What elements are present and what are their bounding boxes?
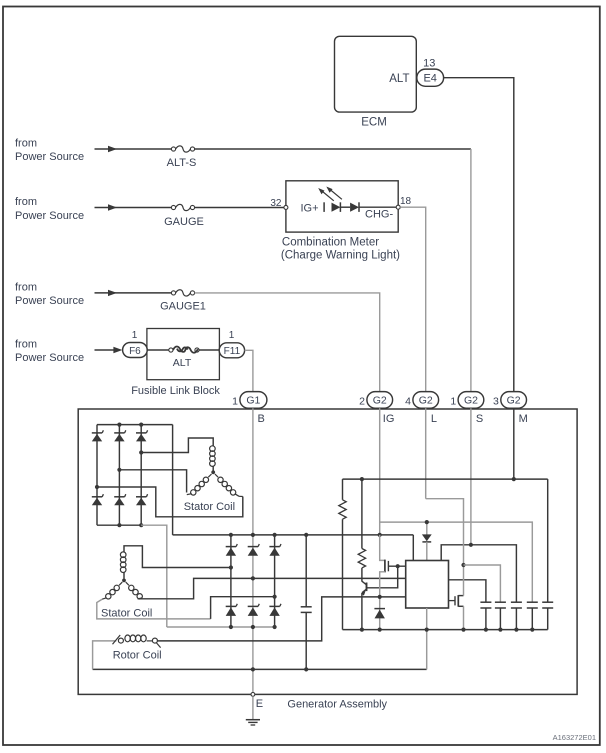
svg-text:G2: G2 bbox=[464, 395, 478, 407]
wire IG branch line bbox=[380, 522, 533, 602]
generator B plus bus bbox=[173, 534, 414, 536]
svg-text:G2: G2 bbox=[507, 395, 521, 407]
wire IG terminal into regulator bbox=[379, 408, 381, 535]
bridge1 column 3 wire bbox=[140, 425, 142, 526]
svg-text:from: from bbox=[15, 339, 37, 351]
svg-text:1: 1 bbox=[132, 330, 138, 341]
svg-text:from: from bbox=[15, 282, 37, 294]
wire B plus bus into IC bbox=[412, 535, 414, 561]
wire S terminal into regulator bbox=[470, 408, 472, 545]
B plus bus dots bbox=[229, 533, 233, 537]
wire from power source 4 with arrow bbox=[95, 349, 115, 351]
bridge1 diode D12 bbox=[114, 432, 124, 434]
regulator local ground bus bbox=[343, 629, 548, 631]
wire tap bridge1 phase2 to stator coil left bbox=[119, 470, 186, 493]
fusible link block box bbox=[147, 329, 220, 380]
ground symbol bbox=[246, 719, 260, 721]
svg-text:32: 32 bbox=[270, 198, 282, 209]
wire stator2 right leg to bridge2 phase2 bbox=[138, 578, 406, 598]
terminal E bbox=[251, 693, 255, 697]
node S junction bbox=[469, 543, 473, 547]
fuse ALT-S bbox=[171, 147, 175, 151]
rotor coil winding bbox=[125, 635, 130, 642]
rotor coil slip ring right bbox=[152, 638, 157, 643]
wire ground bus to rotor left bbox=[93, 641, 117, 670]
wire Q1 base to M1 gate bbox=[366, 566, 397, 588]
svg-text:Power Source: Power Source bbox=[15, 151, 84, 163]
wire from power source 3 with arrow bbox=[95, 292, 172, 294]
bridge1 minus bus bbox=[97, 524, 141, 526]
wire M terminal to regulator rail bbox=[513, 408, 515, 479]
svg-text:ECM: ECM bbox=[361, 116, 387, 128]
capacitor C1 bbox=[305, 535, 307, 607]
svg-text:IG: IG bbox=[383, 413, 395, 425]
fuse GAUGE bbox=[171, 205, 175, 209]
diode D2 flyback bbox=[379, 597, 381, 630]
connector G2 IG (pin 2) bbox=[367, 392, 393, 409]
wire stator2 left leg hook bbox=[97, 599, 211, 619]
connector G2 M (pin 3) bbox=[501, 392, 527, 409]
svg-text:G2: G2 bbox=[419, 395, 433, 407]
wire F6 to fusible link bbox=[147, 349, 169, 351]
bridge2 diode D22 bbox=[248, 546, 258, 548]
svg-text:(Charge Warning Light): (Charge Warning Light) bbox=[281, 250, 400, 262]
svg-text:E: E bbox=[256, 698, 263, 710]
svg-text:from: from bbox=[15, 196, 37, 208]
meter pin 32 bbox=[284, 205, 288, 209]
LED emission arrows bbox=[321, 191, 334, 201]
capacitor C5 plates bbox=[527, 601, 538, 603]
transistor M2 lamp driver bbox=[449, 600, 456, 602]
wire bridge1 plus to B bus bbox=[172, 425, 174, 535]
svg-text:4: 4 bbox=[405, 396, 411, 408]
svg-text:ALT: ALT bbox=[173, 357, 192, 369]
bridge1 column 2 wire bbox=[118, 425, 120, 526]
wire local ground to main ground bbox=[426, 630, 428, 670]
bridge2 diode D23 bbox=[269, 546, 279, 548]
wire IC to capacitor C2 bbox=[449, 580, 486, 602]
wire from power source 1 with arrow bbox=[95, 148, 172, 150]
node L branch bbox=[461, 563, 465, 567]
node bridge1 phase 3 bbox=[139, 450, 143, 454]
bridge2 diode D21 bbox=[226, 546, 236, 548]
connector G2 L (pin 4) bbox=[413, 392, 439, 409]
svg-text:Power Source: Power Source bbox=[15, 352, 84, 364]
bridge2 diode D26 bbox=[269, 605, 279, 607]
bridge1 bus junction dots bbox=[117, 423, 121, 427]
node bridge2 phase 3 bbox=[273, 595, 277, 599]
stator coil 1 center node bbox=[211, 470, 215, 474]
svg-text:1: 1 bbox=[232, 396, 238, 408]
warning light LED 2 bbox=[340, 206, 350, 208]
fuse GAUGE1 bbox=[171, 291, 175, 295]
node bridge2 phase 1 bbox=[229, 565, 233, 569]
node bridge2 phase 2 bbox=[251, 576, 255, 580]
bridge2 diode D24 bbox=[226, 605, 236, 607]
capacitor C4 plates bbox=[511, 601, 522, 603]
svg-text:F6: F6 bbox=[129, 346, 141, 357]
local ground bus dots bbox=[360, 628, 364, 632]
svg-text:CHG-: CHG- bbox=[365, 208, 393, 220]
stator coil 2 right winding bbox=[126, 582, 129, 585]
wire bridge1 minus to ground net bbox=[141, 525, 167, 627]
warning light LED 1 bbox=[323, 202, 325, 212]
bridge1 diode D13 bbox=[136, 432, 146, 434]
resistor R2 bbox=[361, 479, 363, 548]
wire IC ground pin bbox=[426, 608, 428, 630]
svg-text:Stator Coil: Stator Coil bbox=[184, 501, 235, 513]
connector E4 (pin 13) bbox=[417, 69, 444, 86]
bridge1 minus bus dots bbox=[117, 523, 121, 527]
svg-text:G2: G2 bbox=[373, 395, 387, 407]
stator coil 1 left winding bbox=[208, 474, 211, 477]
bridge1 diode D16 bbox=[136, 496, 146, 498]
node bridge1 phase 2 bbox=[117, 468, 121, 472]
bridge1 plus bus bbox=[97, 424, 173, 426]
wire GAUGE to meter pin 32 bbox=[195, 207, 284, 209]
svg-text:Stator Coil: Stator Coil bbox=[101, 607, 152, 619]
wire tap bridge1 phase3 to stator coil top bbox=[141, 438, 213, 453]
wire GAUGE1 to IG terminal bbox=[195, 293, 380, 392]
wire E to ground bbox=[252, 696, 254, 719]
connector G2 S (pin 1) bbox=[458, 392, 484, 409]
stator coil 2 left winding bbox=[119, 582, 122, 585]
zener diode D1 bbox=[426, 522, 428, 535]
svg-text:E4: E4 bbox=[423, 73, 436, 85]
ground bus bbox=[93, 668, 427, 670]
wire E4 to generator M terminal bbox=[444, 78, 514, 392]
node gate bbox=[396, 564, 400, 568]
bridge1 diode D11 bbox=[92, 432, 102, 434]
svg-text:1: 1 bbox=[450, 396, 456, 408]
wire from power source 2 with arrow bbox=[95, 207, 172, 209]
svg-text:Combination Meter: Combination Meter bbox=[282, 237, 379, 249]
fusible link ALT bbox=[169, 348, 173, 352]
ground bus dots bbox=[251, 667, 255, 671]
wire B to E spine bbox=[252, 408, 254, 692]
svg-text:Fusible Link Block: Fusible Link Block bbox=[131, 385, 220, 397]
svg-text:Rotor Coil: Rotor Coil bbox=[113, 649, 162, 661]
wire S sense line bbox=[441, 545, 516, 602]
svg-text:L: L bbox=[431, 413, 437, 425]
transistor M1 field driver bbox=[380, 535, 385, 561]
combination meter box bbox=[286, 181, 398, 232]
capacitor C6 plates bbox=[542, 601, 553, 603]
wire M2 source to local ground bbox=[463, 606, 465, 629]
connector F11 (pin 1) bbox=[219, 343, 244, 358]
svg-text:S: S bbox=[476, 413, 483, 425]
svg-text:GAUGE: GAUGE bbox=[164, 216, 204, 228]
svg-text:F11: F11 bbox=[224, 346, 241, 357]
svg-text:Power Source: Power Source bbox=[15, 295, 84, 307]
svg-text:A163272E01: A163272E01 bbox=[553, 733, 596, 742]
capacitor C2 plates bbox=[480, 601, 491, 603]
node M1 source / rotor bbox=[378, 595, 382, 599]
rail junction dots bbox=[360, 477, 364, 481]
node bridge1 phase 1 bbox=[95, 485, 99, 489]
svg-text:2: 2 bbox=[359, 396, 365, 408]
generator assembly box bbox=[78, 409, 577, 694]
svg-text:B: B bbox=[258, 413, 265, 425]
bridge2 column 3 wire bbox=[274, 535, 276, 627]
svg-text:13: 13 bbox=[423, 57, 435, 69]
capacitor C3 plates bbox=[495, 601, 506, 603]
svg-text:Power Source: Power Source bbox=[15, 210, 84, 222]
bridge1 column 1 wire bbox=[96, 425, 98, 526]
wire stator2 top leg to bridge2 phase1 bbox=[124, 546, 231, 568]
IC U1 voltage regulator bbox=[406, 561, 449, 609]
svg-text:IG+: IG+ bbox=[301, 203, 319, 215]
wire L into M2 drain bbox=[426, 499, 464, 596]
bridge1 diode D14 bbox=[92, 496, 102, 498]
wire tap bridge1 phase1 to stator coil right bbox=[97, 487, 243, 517]
wire to bridge2 phase3 bbox=[211, 597, 275, 619]
svg-text:G1: G1 bbox=[246, 395, 260, 407]
stator coil 2 top winding bbox=[120, 552, 126, 558]
bridge2 minus bus dots bbox=[229, 625, 233, 629]
svg-text:3: 3 bbox=[493, 396, 499, 408]
ECM box bbox=[335, 36, 417, 112]
wire rotor right to regulator bbox=[157, 597, 405, 641]
svg-text:1: 1 bbox=[229, 330, 235, 341]
bridge2 column 1 wire bbox=[230, 535, 232, 627]
resistor R1 bbox=[342, 479, 344, 500]
connector G1 (pin 1) bbox=[240, 392, 267, 409]
bridge2 minus bus bbox=[167, 626, 275, 628]
regulator supply rail bbox=[343, 478, 548, 480]
svg-text:from: from bbox=[15, 138, 37, 150]
node zener top bbox=[425, 520, 429, 524]
wire gate node to IC bbox=[388, 565, 405, 567]
wire CHG- to L terminal bbox=[400, 207, 426, 391]
rotor coil slip ring left bbox=[113, 635, 121, 644]
wire L branch to capacitor C3 bbox=[464, 565, 501, 602]
bridge2 diode D25 bbox=[248, 605, 258, 607]
svg-text:ALT: ALT bbox=[389, 73, 409, 85]
stator coil 1 right winding bbox=[215, 474, 218, 477]
svg-text:M: M bbox=[519, 413, 528, 425]
stator coil 2 center node bbox=[122, 579, 126, 583]
bridge1 diode D15 bbox=[114, 496, 124, 498]
wire F11 to B terminal bbox=[245, 350, 253, 391]
svg-text:18: 18 bbox=[400, 196, 412, 207]
wire L terminal into regulator bbox=[425, 408, 427, 499]
wire fusible link to F11 bbox=[199, 349, 219, 351]
transistor Q1 bbox=[366, 583, 368, 592]
wire rail to capacitor C6 bbox=[547, 479, 549, 602]
meter pin 18 bbox=[396, 205, 400, 209]
connector F6 (pin 1) bbox=[123, 343, 148, 358]
svg-text:Generator Assembly: Generator Assembly bbox=[287, 698, 387, 710]
stator coil 1 top winding bbox=[210, 446, 216, 452]
wire ALT-S to S terminal bbox=[195, 148, 471, 150]
svg-text:GAUGE1: GAUGE1 bbox=[160, 301, 206, 313]
svg-text:ALT-S: ALT-S bbox=[167, 157, 197, 169]
